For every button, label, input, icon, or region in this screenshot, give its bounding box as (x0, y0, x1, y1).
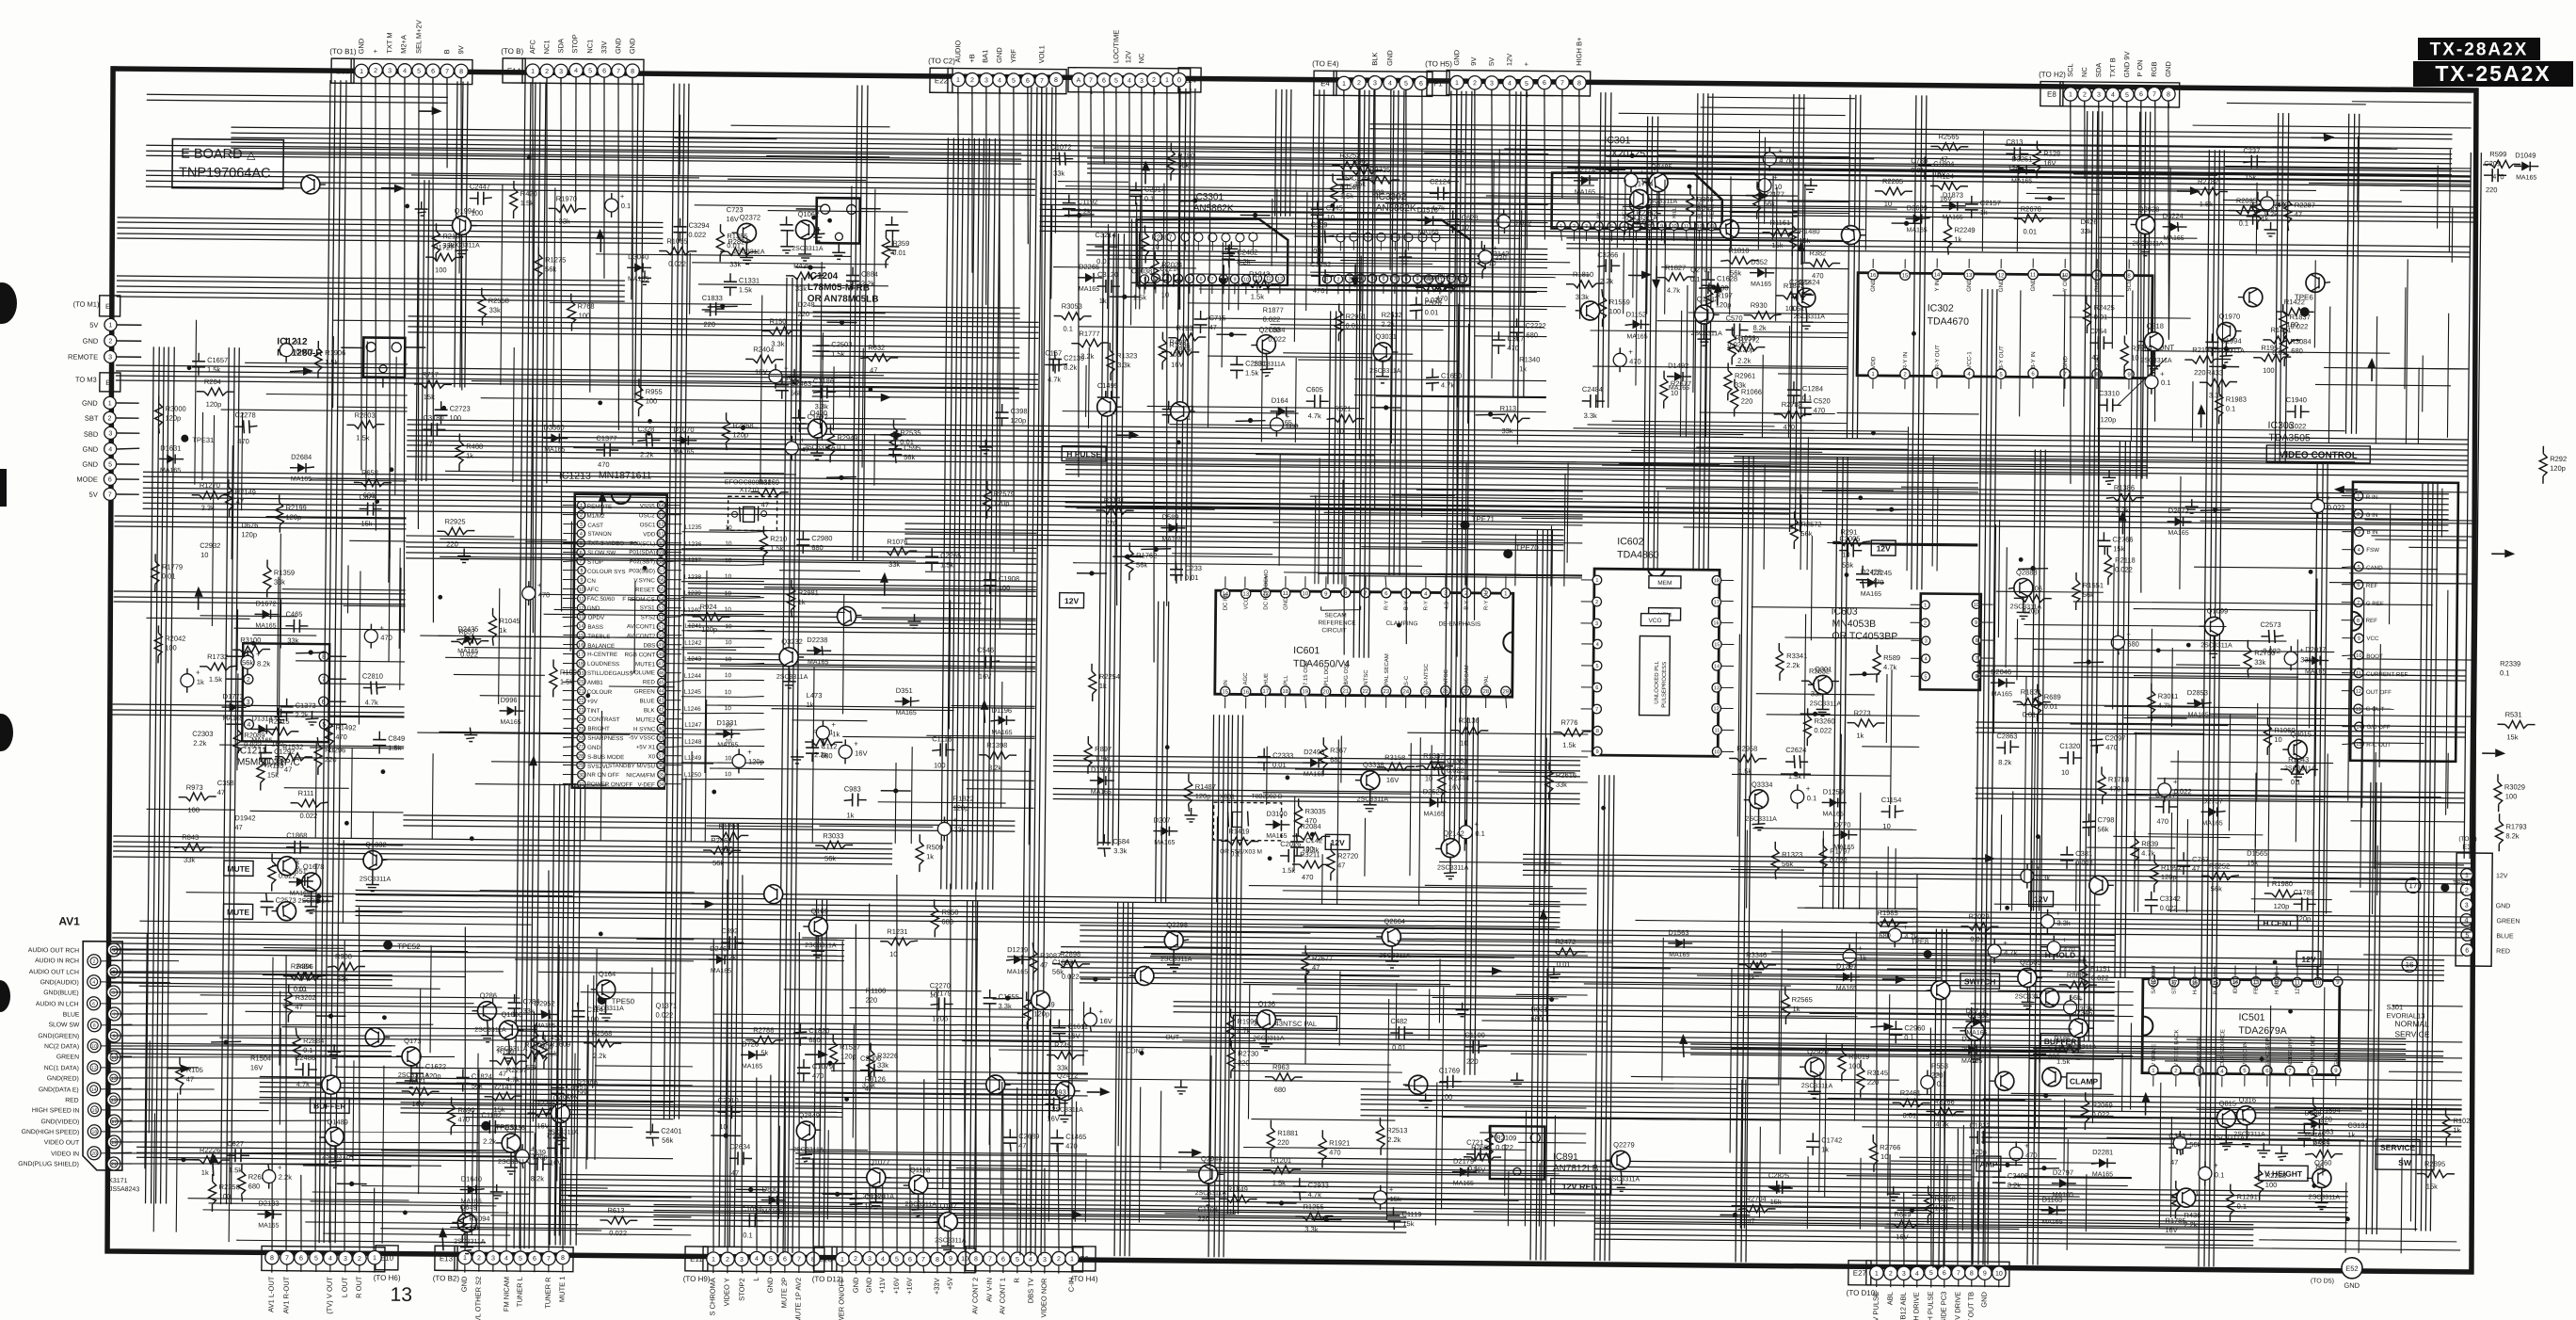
wire (1108, 259, 1256, 261)
wire (1125, 555, 1341, 557)
wire (283, 1006, 503, 1007)
wire (1318, 573, 1582, 576)
IC IC303 TDA3505 block (2339, 482, 2458, 762)
svg-text:C2278: C2278 (235, 410, 256, 419)
testpoint TPE51 (481, 1121, 519, 1132)
svg-text:26: 26 (578, 736, 584, 742)
svg-text:+: + (379, 624, 384, 633)
label MUTE 1 (224, 861, 253, 876)
svg-text:VDD: VDD (643, 531, 656, 538)
svg-text:4.7k: 4.7k (1441, 380, 1455, 389)
svg-text:BLK: BLK (1370, 53, 1379, 66)
wire (2126, 794, 2441, 797)
svg-text:6: 6 (431, 69, 435, 75)
svg-text:R2572: R2572 (1800, 520, 1821, 528)
wire (1584, 984, 1791, 986)
wire junction (1285, 776, 1289, 781)
component cluster top-right 3 (1965, 196, 2001, 218)
svg-text:1.5k: 1.5k (1562, 741, 1576, 749)
component cluster top-mid-right 34 (1667, 362, 1691, 392)
wire (344, 604, 406, 607)
svg-text:GND(BLUE): GND(BLUE) (43, 990, 78, 996)
IC IC302 TDA4670 (1857, 257, 2152, 392)
svg-text:2: 2 (477, 1255, 481, 1262)
component cluster far right column 8 (2494, 774, 2525, 812)
wire (332, 336, 335, 408)
svg-text:13: 13 (578, 615, 584, 620)
svg-text:SERVICE: SERVICE (2380, 1143, 2416, 1152)
svg-text:(TO B2): (TO B2) (433, 1274, 460, 1282)
testpoint TPE8 (1911, 937, 1932, 958)
svg-text:PLL: PLL (1284, 675, 1289, 685)
svg-text:CIRCUIT: CIRCUIT (1321, 627, 1346, 634)
wire (499, 588, 500, 704)
svg-text:4.7k: 4.7k (296, 1080, 311, 1088)
component cluster right middle 9 (2040, 910, 2071, 934)
wire junction (1140, 1051, 1144, 1055)
wire (843, 594, 844, 714)
component cluster bottom mid-left 19 (797, 1059, 833, 1082)
svg-text:33k: 33k (2080, 227, 2091, 235)
wire junction (2036, 834, 2040, 839)
svg-text:(TO H6): (TO H6) (374, 1274, 401, 1282)
component cluster far right column 3 (2491, 549, 2515, 557)
component cluster bottom right edge 19 (2165, 1216, 2185, 1234)
svg-text:R2565: R2565 (1938, 133, 1959, 141)
component cluster top-center 22 (1241, 269, 1279, 300)
component cluster top-center 68 (1263, 306, 1284, 324)
svg-text:10: 10 (719, 1122, 727, 1131)
component cluster right mid 7 (2253, 344, 2291, 375)
svg-text:R105: R105 (186, 1066, 203, 1074)
component cluster top-center 25 (1332, 151, 1369, 182)
wire (1448, 222, 1548, 223)
component cluster right middle 27 (2008, 568, 2042, 619)
svg-text:D1070: D1070 (673, 426, 694, 434)
wire bus h14 (407, 420, 2468, 476)
component cluster left column 13 (200, 541, 220, 559)
svg-text:MA165: MA165 (1861, 591, 1881, 598)
svg-text:R273: R273 (1854, 709, 1871, 717)
svg-text:C3252: C3252 (1310, 260, 1331, 268)
svg-text:C605: C605 (1306, 385, 1323, 394)
component cluster top-center 36 (1110, 294, 1140, 299)
wire (2176, 664, 2240, 667)
component cluster right middle 30 (2131, 831, 2158, 869)
svg-text:VL OTHER S2: VL OTHER S2 (473, 1277, 482, 1320)
wire (333, 319, 408, 322)
svg-text:E1: E1 (105, 302, 114, 311)
wire (1993, 524, 1995, 733)
component cluster upper-left center 43 (673, 218, 709, 241)
wire (1432, 997, 1559, 998)
wire junction (1871, 430, 1876, 435)
svg-text:1k: 1k (807, 700, 814, 709)
component cluster mid-left 28 (760, 526, 787, 564)
svg-text:1: 1 (360, 69, 363, 75)
wire (1138, 233, 1141, 288)
component cluster bottom mid-left 39 (1030, 942, 1061, 980)
svg-text:2SC3311A: 2SC3311A (2200, 642, 2232, 649)
component cluster right middle 21 (2280, 755, 2318, 786)
svg-text:16: 16 (1713, 620, 1719, 626)
svg-text:+16V: +16V (905, 1278, 914, 1295)
svg-text:680: 680 (808, 1036, 821, 1044)
wire (212, 415, 214, 626)
wire (310, 747, 404, 749)
component cluster center-left of IC601 14 (1184, 808, 1197, 822)
wire bus h48 (1080, 926, 2115, 952)
component cluster bottom left 51 (472, 991, 506, 1042)
wire (2352, 742, 2424, 745)
svg-text:TDA4860: TDA4860 (1617, 549, 1659, 560)
svg-text:2: 2 (854, 1256, 857, 1263)
wire (372, 812, 375, 865)
svg-text:10: 10 (2274, 735, 2281, 744)
svg-text:FSW: FSW (2366, 547, 2379, 554)
component cluster mid-left 3 (953, 795, 974, 813)
wire (2390, 504, 2391, 624)
wire (2149, 798, 2324, 800)
svg-text:8: 8 (1054, 77, 1058, 84)
svg-text:TPE50: TPE50 (612, 997, 635, 1006)
svg-text:100: 100 (165, 643, 177, 652)
component cluster top-mid-right 3 (1762, 218, 1800, 250)
wire (1828, 1098, 2025, 1100)
wire (1179, 154, 1181, 310)
wire (139, 921, 531, 925)
svg-text:470: 470 (721, 845, 733, 853)
svg-text:AV1 L-OUT: AV1 L-OUT (266, 1276, 275, 1312)
component cluster left column 36 (154, 625, 185, 663)
component cluster mid-left 23 (879, 538, 917, 569)
svg-text:2.2k: 2.2k (640, 450, 654, 459)
svg-text:(TO D5): (TO D5) (2311, 1278, 2334, 1284)
svg-text:C628: C628 (1462, 214, 1479, 222)
svg-text:7: 7 (1976, 656, 1978, 662)
svg-text:2: 2 (108, 338, 112, 345)
svg-text:+: + (854, 740, 858, 749)
svg-text:R408: R408 (466, 443, 483, 451)
svg-text:7: 7 (2357, 601, 2360, 606)
component cluster left column 29 (241, 521, 258, 539)
svg-text:GND(HIGH SPEED): GND(HIGH SPEED) (22, 1129, 80, 1136)
svg-text:6: 6 (908, 1257, 912, 1264)
wire bus h40 (795, 1153, 1972, 1180)
wire (1164, 1213, 1235, 1215)
svg-text:3.3k: 3.3k (2056, 919, 2071, 927)
svg-text:15: 15 (1714, 642, 1720, 648)
svg-text:7: 7 (547, 1256, 551, 1263)
connector E1 (68, 295, 142, 362)
component cluster top-center 54 (1167, 143, 1194, 181)
svg-text:2SC3311A: 2SC3311A (1160, 957, 1192, 963)
svg-text:R396: R396 (296, 962, 313, 971)
svg-text:4: 4 (1388, 80, 1392, 87)
component cluster right middle 13 (2018, 566, 2048, 571)
svg-text:7: 7 (921, 1257, 925, 1264)
svg-text:16V: 16V (979, 672, 991, 681)
svg-text:2: 2 (1057, 1256, 1061, 1263)
wire (2347, 659, 2475, 660)
component cluster mid-left 30 (839, 739, 868, 764)
testpoint TPE52 (383, 941, 421, 951)
wire (1787, 969, 1845, 972)
svg-text:2SC3311A: 2SC3311A (805, 942, 837, 949)
svg-text:C392: C392 (721, 926, 738, 935)
svg-text:MA165: MA165 (1943, 215, 1963, 221)
wire (2315, 384, 2451, 385)
wire (382, 1066, 384, 1244)
svg-text:Q1118: Q1118 (910, 1166, 930, 1174)
svg-text:9: 9 (949, 1256, 952, 1263)
component cluster top-right 13 (1892, 220, 1922, 226)
wire (1208, 356, 1372, 358)
component cluster top-mid-right 31 (1597, 250, 1620, 285)
wire bus v52 (813, 899, 827, 1248)
component cluster bottom right edge 18 (2305, 1139, 2343, 1170)
svg-text:1k: 1k (1519, 364, 1527, 373)
svg-text:R689: R689 (2044, 693, 2061, 701)
svg-text:+: + (2327, 494, 2331, 503)
connector E52 GND (2311, 1257, 2362, 1290)
wire bus h41 (136, 1147, 522, 1161)
component cluster right middle 29 (2260, 620, 2283, 655)
component cluster right middle 37 (2264, 879, 2302, 910)
wire (2177, 750, 2179, 912)
svg-text:Q2279: Q2279 (1613, 1140, 1635, 1149)
svg-text:8: 8 (459, 69, 463, 75)
svg-text:0: 0 (1177, 77, 1181, 84)
svg-text:2SC3311A: 2SC3311A (1794, 314, 1826, 320)
component cluster right middle 17 (2104, 547, 2136, 585)
svg-text:R1323: R1323 (1116, 351, 1137, 360)
wire (1862, 1127, 2067, 1129)
component cluster bottom left 12 (192, 1146, 230, 1177)
component cluster left of IC1213 9 (451, 627, 488, 658)
IC IC3301 AN5862K (1136, 191, 1288, 296)
wire (1788, 326, 1789, 438)
wire (1261, 342, 1262, 443)
wire (1131, 218, 1132, 325)
svg-text:47: 47 (658, 661, 664, 667)
wire bus v42 (1227, 715, 1242, 1214)
component cluster top-mid-right 4 (1660, 371, 1691, 409)
wire (2017, 704, 2195, 706)
svg-text:0.1: 0.1 (743, 1231, 753, 1239)
svg-text:GND: GND (83, 337, 99, 346)
wire (1210, 1055, 1211, 1180)
svg-text:1k: 1k (466, 452, 473, 460)
wire junction (1912, 331, 1916, 336)
component cluster right middle 39 (2089, 731, 2125, 753)
wire (2092, 953, 2094, 1123)
component cluster bottom mid-right 33 (1751, 962, 1764, 976)
component cluster top-center 21 (1064, 213, 1095, 218)
wire (2311, 185, 2471, 186)
wire (1745, 1038, 1870, 1039)
svg-text:P03(SBD): P03(SBD) (629, 568, 655, 574)
IC IC602 TDA4860 (1579, 536, 1736, 757)
component cluster right mid 16 (2145, 370, 2171, 394)
svg-text:2: 2 (1336, 277, 1339, 282)
svg-text:1k: 1k (197, 678, 204, 686)
svg-text:3: 3 (1490, 80, 1494, 87)
component cluster mid-left 20 (843, 784, 866, 819)
wire (490, 1215, 691, 1217)
wire (1438, 573, 1582, 574)
component cluster top-center 55 (1381, 311, 1401, 329)
component cluster bottom left 47 (600, 1206, 637, 1237)
wire (1385, 203, 1548, 205)
svg-text:C2097: C2097 (2104, 733, 2125, 742)
svg-text:5: 5 (2125, 92, 2129, 99)
svg-text:3: 3 (559, 69, 563, 75)
wire (1554, 1116, 1555, 1227)
svg-text:1.5k: 1.5k (770, 544, 784, 553)
svg-text:24: 24 (578, 717, 584, 723)
component cluster bottom mid-right 38 (2033, 1040, 2065, 1063)
svg-text:GND: GND (587, 745, 600, 751)
svg-text:LOC/TIME: LOC/TIME (1112, 30, 1120, 64)
wire (557, 945, 559, 1135)
component cluster top-mid-right 17 (1628, 270, 1652, 279)
svg-text:1: 1 (373, 1255, 376, 1262)
wire arrow 5 (2311, 133, 2334, 141)
wire (399, 548, 400, 649)
svg-text:D3100: D3100 (1267, 810, 1288, 818)
svg-text:DC FOR DEMO: DC FOR DEMO (1264, 570, 1270, 610)
wire (1778, 373, 1848, 376)
component cluster bottom left 8 (257, 1199, 281, 1229)
svg-text:11: 11 (111, 1055, 116, 1061)
wire (1680, 311, 1681, 437)
svg-text:56k: 56k (824, 854, 836, 862)
svg-text:BLUE: BLUE (63, 1011, 80, 1018)
svg-text:680: 680 (1530, 1014, 1543, 1022)
wire junction (2260, 1056, 2264, 1061)
wire (1216, 816, 1219, 902)
svg-text:R2887: R2887 (1151, 233, 1172, 242)
svg-text:C1284: C1284 (1802, 384, 1823, 393)
component cluster bottom mid-left 26 (1003, 1129, 1039, 1151)
wire (1619, 113, 1846, 115)
svg-text:R3136: R3136 (1458, 716, 1479, 725)
wire (1844, 958, 2087, 960)
component cluster upper-left center 35 (425, 243, 463, 274)
wire (2099, 236, 2197, 239)
svg-text:3: 3 (2097, 92, 2101, 99)
svg-text:H PULSE: H PULSE (1926, 1291, 1934, 1320)
wire bus v31 (2464, 153, 2481, 859)
wire (2373, 706, 2375, 914)
svg-text:2.2k: 2.2k (1737, 356, 1752, 364)
svg-text:R2199: R2199 (286, 504, 307, 512)
component cluster left column 22 (152, 554, 183, 591)
component cluster left column 21 (159, 443, 184, 474)
component cluster top-center 47 (1180, 198, 1210, 203)
component cluster right mid 3 (2198, 404, 2206, 427)
transistor Q301 (1576, 301, 1600, 320)
wire (1713, 436, 1776, 439)
component cluster bottom left 6 (410, 1059, 446, 1082)
wire (464, 1118, 673, 1119)
svg-text:6: 6 (533, 1256, 536, 1263)
wire (1730, 176, 1731, 314)
transistor Q1214 (301, 175, 326, 194)
component cluster top-center 33 (1330, 173, 1361, 211)
svg-text:47: 47 (2192, 864, 2200, 873)
svg-text:C3310: C3310 (2099, 389, 2120, 397)
component cluster top-center 43 (1416, 205, 1441, 235)
svg-text:MA165: MA165 (711, 968, 731, 974)
component cluster right of IC602 3 (1801, 667, 1839, 698)
svg-text:100: 100 (435, 266, 447, 274)
svg-text:5V: 5V (89, 321, 98, 330)
component cluster bottom mid-left 36 (829, 1034, 860, 1071)
svg-text:△: △ (247, 148, 256, 161)
svg-text:1: 1 (1455, 80, 1459, 87)
component cluster left column 51 (304, 893, 334, 899)
svg-text:7: 7 (1393, 277, 1396, 282)
wire bus v32 (221, 347, 240, 1204)
component cluster bottom mid-right 7 (1679, 1034, 1688, 1057)
component cluster bottom mid-right 45 (2040, 1196, 2065, 1226)
wire (595, 1065, 693, 1068)
svg-text:G IN: G IN (2366, 512, 2378, 519)
component cluster bottom mid-right 30 (1882, 975, 1906, 984)
svg-text:E9: E9 (1080, 1255, 1089, 1264)
svg-text:13: 13 (1277, 277, 1283, 282)
wire junction (1858, 495, 1863, 500)
transistor Q3177 (1097, 397, 1122, 416)
svg-text:MUTE 2P: MUTE 2P (779, 1278, 788, 1309)
component cluster bottom left 9 (227, 1139, 249, 1174)
svg-text:6: 6 (1102, 78, 1106, 85)
wire (2034, 1047, 2037, 1129)
svg-text:27: 27 (578, 745, 584, 750)
svg-text:D2609: D2609 (1907, 203, 1928, 212)
IC IC601 TDA4650/V4 (1215, 569, 1514, 711)
wire (1657, 155, 1849, 157)
svg-text:7: 7 (616, 69, 620, 75)
wire (816, 1093, 1088, 1096)
svg-text:GND: GND (2062, 356, 2069, 369)
wire bus v12 (1973, 289, 1997, 1264)
svg-text:3: 3 (1902, 1271, 1906, 1278)
wire (1405, 1086, 1737, 1088)
wire bus v49 (635, 83, 644, 398)
wire (2223, 200, 2402, 201)
wire (1886, 543, 1977, 546)
svg-text:C627: C627 (227, 1139, 244, 1148)
wire (2113, 563, 2114, 709)
svg-text:+16V: +16V (892, 1278, 901, 1295)
svg-text:10: 10 (889, 950, 897, 958)
svg-text:IN: IN (1224, 680, 1229, 685)
svg-text:C1104: C1104 (1197, 1205, 1218, 1214)
scan artifact blob 3 (0, 714, 13, 751)
wire (967, 788, 1034, 791)
wire (1283, 891, 1587, 893)
svg-text:0.01: 0.01 (1185, 573, 1199, 582)
wire (430, 945, 431, 1053)
wire (1744, 969, 1952, 971)
component cluster bottom mid-left 11 (745, 1025, 783, 1056)
svg-text:47: 47 (2295, 210, 2302, 218)
svg-text:4: 4 (403, 68, 407, 74)
label BUFFER av (310, 1098, 349, 1113)
